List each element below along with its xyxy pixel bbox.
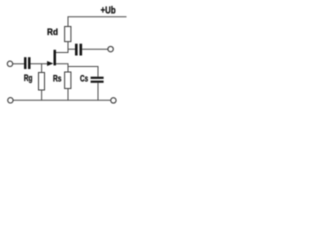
svg-text:Rs: Rs [53, 73, 62, 83]
svg-text:+Ub: +Ub [101, 6, 116, 17]
svg-text:Rd: Rd [47, 27, 58, 38]
svg-text:Rg: Rg [24, 73, 33, 83]
svg-text:Cs: Cs [80, 74, 88, 84]
